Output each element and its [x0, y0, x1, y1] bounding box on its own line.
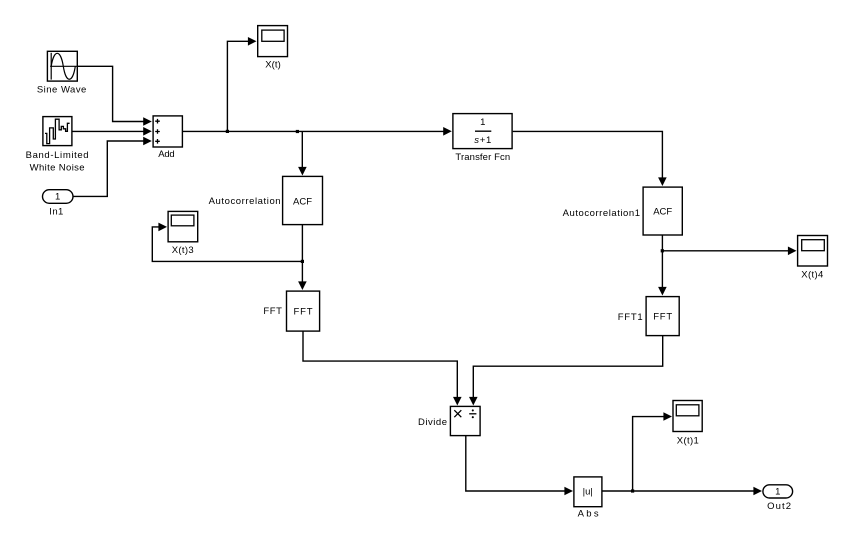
arrowhead into Divide input 1	[453, 397, 462, 406]
wire In1 to Add	[73, 141, 144, 196]
svg-text:X(t): X(t)	[265, 60, 281, 71]
svg-text:White Noise: White Noise	[30, 162, 85, 173]
wire Abs to Out2	[602, 490, 755, 492]
junction node Abs output	[631, 489, 634, 492]
arrowhead into Add input 3	[143, 137, 152, 146]
svg-text:X(t)4: X(t)4	[801, 270, 823, 281]
junction node on Add output (ACF branch)	[296, 130, 299, 133]
svg-text:Autocorrelation: Autocorrelation	[209, 196, 281, 207]
svg-text:FFT: FFT	[263, 306, 282, 317]
arrowhead into Scope X(t)3	[158, 223, 167, 232]
block Band-Limited White Noise	[26, 117, 89, 174]
svg-text:Autocorrelation1: Autocorrelation1	[563, 208, 640, 219]
wire Autocorrelation to FFT	[301, 225, 303, 284]
port Out2	[763, 485, 793, 512]
svg-text:s+1: s+1	[474, 135, 491, 146]
arrowhead into Scope X(t)	[248, 37, 257, 46]
arrowhead into FFT1	[658, 287, 667, 296]
arrowhead into Divide input 2	[469, 397, 478, 406]
wire Sine Wave to Add	[78, 66, 144, 121]
block FFT	[263, 291, 319, 331]
block Divide	[418, 406, 480, 435]
arrowhead into Add input 1	[143, 117, 152, 126]
arrowhead into Out2	[753, 487, 762, 496]
block FFT1	[618, 297, 679, 336]
block Scope X(t)4	[798, 236, 828, 281]
svg-text:In1: In1	[49, 206, 63, 217]
arrowhead into Transfer Fcn	[443, 127, 452, 136]
svg-text:1: 1	[55, 192, 60, 203]
svg-text:Add: Add	[158, 149, 174, 160]
wire FFT1 to Divide	[473, 336, 662, 399]
wire Band-Limited White Noise to Add	[72, 130, 144, 132]
block Sine Wave	[37, 51, 87, 95]
wire Divide to Abs	[466, 436, 567, 491]
wire FFT to Divide	[303, 332, 457, 400]
svg-text:FFT: FFT	[294, 307, 313, 318]
block Transfer Fcn	[453, 114, 512, 163]
junction node ACF1-FFT1 wire	[661, 249, 664, 252]
arrowhead into Scope X(t)4	[788, 247, 797, 256]
wire Autocorrelation1 to FFT1	[661, 236, 663, 290]
wire Add to Transfer Fcn	[183, 130, 445, 132]
svg-text:ACF: ACF	[293, 196, 312, 207]
arrowhead into Autocorrelation1	[658, 177, 667, 186]
port In1	[43, 190, 74, 218]
arrowhead into Scope X(t)1	[663, 412, 672, 421]
arrowhead into Autocorrelation	[298, 167, 307, 176]
junction node on Add output (scope branch)	[226, 130, 229, 133]
svg-text:X(t)1: X(t)1	[677, 436, 699, 447]
block Add	[153, 116, 182, 160]
svg-text:Divide: Divide	[418, 417, 447, 428]
arrowhead into FFT	[298, 281, 307, 290]
svg-text:FFT: FFT	[653, 312, 672, 323]
svg-text:1: 1	[480, 117, 485, 128]
wire branch to Scope X(t)3	[152, 227, 302, 262]
svg-text:Band-Limited: Band-Limited	[26, 150, 89, 161]
svg-text:Transfer Fcn: Transfer Fcn	[455, 152, 510, 163]
wire Transfer Fcn to Autocorrelation1	[513, 131, 663, 179]
block Autocorrelation ACF	[209, 176, 323, 224]
svg-text:Sine Wave: Sine Wave	[37, 85, 87, 96]
wire branch to Scope X(t)4	[662, 250, 790, 252]
svg-text:FFT1: FFT1	[618, 312, 643, 323]
svg-text:X(t)3: X(t)3	[172, 245, 194, 256]
block Autocorrelation1 ACF	[563, 187, 683, 235]
svg-text:Abs: Abs	[578, 509, 599, 520]
arrowhead into Abs	[564, 487, 573, 496]
svg-text:ACF: ACF	[653, 207, 672, 218]
block Abs	[574, 477, 602, 520]
svg-text:|u|: |u|	[583, 487, 593, 498]
wire branch to Autocorrelation	[301, 131, 303, 168]
block Scope X(t)1	[673, 401, 702, 447]
arrowhead into Add input 2	[143, 127, 152, 136]
block Scope X(t)3	[168, 211, 198, 256]
wire branch to Scope X(t)	[227, 41, 249, 131]
block Scope X(t)	[258, 26, 288, 71]
svg-text:Out2: Out2	[767, 501, 791, 512]
wire branch to Scope X(t)1	[633, 417, 666, 491]
svg-text:1: 1	[775, 487, 780, 498]
junction node ACF-FFT wire	[301, 260, 304, 263]
